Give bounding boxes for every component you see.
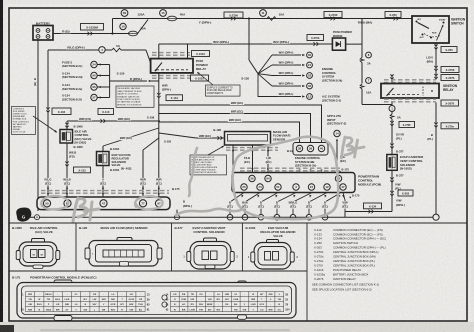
- connector X-250 label: [441, 47, 457, 53]
- fuse 10A: [267, 17, 276, 21]
- connector X-263: [390, 191, 394, 193]
- relay X-1016 PCM power relay: [151, 59, 193, 73]
- wire V/W (PL): [391, 170, 393, 211]
- wire R/LG (EC) down to PCM: [47, 50, 49, 197]
- connector X-1016 label top: [192, 51, 210, 57]
- connector hatch above ignition relay: [384, 79, 436, 81]
- terminal 11: [260, 10, 267, 17]
- PCM pin grid right block: [171, 292, 284, 312]
- PCM pin grid left block: [26, 292, 146, 312]
- note supplies current: [206, 85, 241, 96]
- wire V (EC) to PCM: [102, 166, 104, 198]
- relay X-2076 ignition relay: [381, 84, 439, 99]
- wire B (B) battery to ground: [37, 40, 39, 211]
- handwritten B+ annotation left: [73, 198, 99, 222]
- note regulated vacuum: [116, 86, 154, 107]
- wire R/LG (DPH-) with fuse 5A and terminal 4: [48, 49, 99, 51]
- wire V/W (EC) PCM pin 47: [343, 193, 345, 212]
- wire W/R (EC) upper to engine control 40: [159, 105, 322, 143]
- connector engine control system B19B: [293, 143, 328, 156]
- wire B (EC) PCM to ground ring: [325, 193, 341, 215]
- valve B-1066 idle air control: [65, 123, 69, 125]
- wire W/R (EC) lower to engine control 38: [159, 122, 300, 143]
- node battery feed junction: [111, 32, 113, 34]
- splice S-129 bus: [109, 65, 111, 98]
- wire R (B) from battery: [53, 33, 113, 35]
- handwritten B+ annotation right: [342, 137, 365, 158]
- connector X-2706 on rail: [224, 12, 243, 18]
- wire stub relay left pin: [391, 75, 393, 84]
- connector X-2790 on rail: [324, 12, 342, 18]
- connector X-270e label: [441, 123, 459, 129]
- connector X-134 label mid: [166, 95, 183, 101]
- wire to rail from diode: [361, 19, 363, 45]
- wire LG/V (MA) ignition switch to relay: [435, 43, 437, 80]
- ground bus: [30, 216, 434, 218]
- ignition switch X-250: [412, 16, 449, 43]
- note monitors intake air: [190, 155, 227, 175]
- connector hatch below PCM power relay: [152, 75, 190, 77]
- wire divider: [9, 222, 467, 224]
- inline connector on R (B) wire: [87, 32, 89, 36]
- wire MAF signal to PCM: [252, 145, 254, 173]
- wire W/V (DPH-) branch to terminal 32: [258, 74, 272, 76]
- solenoid B-377 evap canister vent control: [387, 155, 397, 171]
- note controls idle speed: [12, 107, 36, 135]
- wire W/R (EC) into MAF: [196, 137, 225, 139]
- wire W/R (DPH-) relay output: [158, 73, 160, 197]
- connector X-2076 label below relay: [441, 100, 459, 106]
- wire B (EC) PCM to ground ring: [277, 193, 296, 215]
- wire B (EC) PCM to ground ring: [230, 193, 244, 215]
- wire W/R (EC) middle to engine control 39: [159, 114, 311, 143]
- wire B (EC) PCM to ground ring: [261, 193, 278, 215]
- wire R (DPH-): [129, 77, 144, 81]
- wire W/LB to PCM: [66, 143, 68, 197]
- main supply rail: [113, 18, 413, 20]
- sensor B-128 mass air flow: [225, 132, 271, 146]
- module PCM main block B-175: [232, 173, 355, 193]
- wire W/V (DPH-) branch to terminal 30: [258, 55, 272, 74]
- connector X-104: [52, 108, 71, 115]
- wire W/V (DPH-) branch to terminal 46: [258, 74, 272, 86]
- wire B/W (EC) PCM to ground ring: [245, 193, 260, 215]
- terminal 15: [160, 10, 167, 17]
- valve B-1063 EGR vacuum regulator: [102, 146, 104, 152]
- wire W/R (EC) to PCM pin 77: [142, 150, 144, 197]
- wire B (EC) PCM to ground ring: [309, 193, 327, 215]
- wire BR/LG (EC) PCM to ground ring: [293, 193, 312, 215]
- wire W/R (EC) to PCM pin 97: [156, 178, 162, 182]
- battery: [33, 26, 53, 41]
- wire B (PL) ignition relay to ground: [435, 103, 437, 215]
- connector hatch below MAF: [226, 147, 278, 149]
- ground terminal: [35, 215, 40, 220]
- connector X-270F: [390, 121, 394, 123]
- ground G: [16, 208, 31, 222]
- connector hatch below ignition relay: [384, 98, 436, 100]
- wire fused feed with terminals 8 and 7: [361, 44, 363, 57]
- connector X-270b: [307, 35, 324, 41]
- connector X-1016 label bottom: [191, 75, 209, 81]
- connector X-250 on rail: [385, 12, 401, 18]
- splice S-136: [248, 19, 250, 61]
- wire W/V (DPH-) branch to terminal 21: [258, 65, 272, 74]
- terminal FB: [121, 10, 128, 17]
- handwritten loop annotation: [176, 137, 338, 219]
- connector hatch above PCM power relay: [152, 52, 190, 54]
- wire W/R (FS) to IAC: [67, 120, 159, 122]
- wire T/LB (EC) MAF to PCM: [232, 145, 234, 173]
- handwritten circle annotations on strip pins: [41, 196, 162, 209]
- connector hatch above PCM block: [240, 167, 340, 169]
- connector X-1035M: [81, 24, 104, 31]
- wire L/R (EC) MAF to PCM: [267, 145, 269, 173]
- connector X-133: [74, 167, 91, 173]
- terminal 1: [389, 106, 395, 112]
- connector X-2706 label: [441, 67, 459, 73]
- splice S-105 diagonals: [103, 128, 159, 146]
- connector X-134 label: [364, 203, 382, 209]
- node rail junction to S-136: [248, 17, 250, 19]
- ground ring right: [433, 214, 439, 220]
- wire G/Y/R (PL) with fuse 5A: [391, 112, 393, 115]
- wire W/V (DPH-) relay to diode: [159, 43, 333, 45]
- connector X-110: [98, 109, 114, 115]
- fuse 40A: [167, 16, 176, 21]
- wire B (DPH-): [176, 210, 178, 215]
- module PCM left connector strip B-175: [41, 190, 169, 192]
- wire W/V (DPH-) branch to terminal 12: [258, 74, 301, 97]
- terminal 14 with wire L/G (EC): [334, 130, 340, 136]
- fuse 30A with terminal 10: [113, 33, 129, 35]
- connector X-2076 label: [441, 75, 459, 81]
